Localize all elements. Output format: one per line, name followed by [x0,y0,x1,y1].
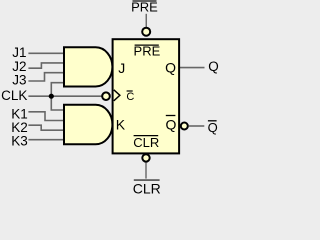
svg-text:J: J [118,60,125,76]
svg-text:CLK: CLK [1,88,27,103]
wire J3 [28,73,64,81]
svg-text:C: C [126,91,134,103]
pin label PRE [134,44,161,59]
wire CLR stem [145,162,147,178]
label CLK [1,88,27,103]
net label Q [208,59,219,74]
wire Q output [180,67,205,69]
svg-text:J1: J1 [12,45,26,60]
svg-text:PRE: PRE [134,44,161,59]
svg-text:Q: Q [166,117,177,133]
svg-text:PRE: PRE [131,0,158,14]
pin label Q [165,60,176,76]
wire K3 [28,139,64,141]
wire K2 [28,125,64,130]
label K1 [11,107,28,122]
net label PRE (top) [131,0,158,14]
pin label Qbar [166,116,177,133]
Qbar output bubble [181,123,188,130]
and gate G1 [64,47,112,86]
wire Qbar output [189,125,205,127]
svg-text:K3: K3 [11,133,28,148]
wire CLK branch to AND2 [51,96,64,110]
net label Qbar [208,120,218,135]
label J1 [12,45,26,60]
label K2 [11,120,28,135]
svg-text:Q: Q [208,120,218,135]
svg-text:Q: Q [165,60,176,76]
svg-text:CLR: CLR [133,180,161,194]
node CLK junction [49,94,54,99]
wire PRE stem [145,14,147,27]
PRE input bubble [142,28,150,36]
svg-text:K: K [116,116,126,132]
JK flip-flop U1 body [113,39,180,153]
label K3 [11,133,28,148]
svg-text:Q: Q [208,59,219,74]
wire CLK [28,95,102,97]
label J2 [12,59,26,74]
pin label Cbar [126,91,134,103]
clock edge chevron [114,90,120,101]
wire CLK branch to AND1 [51,83,64,97]
pin label K [116,116,126,132]
label J3 [12,73,26,88]
wire J1 [28,52,64,54]
wire K1 [28,112,64,121]
pin label CLR [133,135,159,150]
net label CLR (bottom) [133,180,161,196]
pin label J [118,60,125,76]
wire J2 [28,63,64,68]
svg-text:J3: J3 [12,73,26,88]
svg-text:CLR: CLR [133,135,159,150]
and gate G2 [64,105,112,145]
clock input bubble [102,92,110,100]
CLR input bubble [142,154,149,161]
